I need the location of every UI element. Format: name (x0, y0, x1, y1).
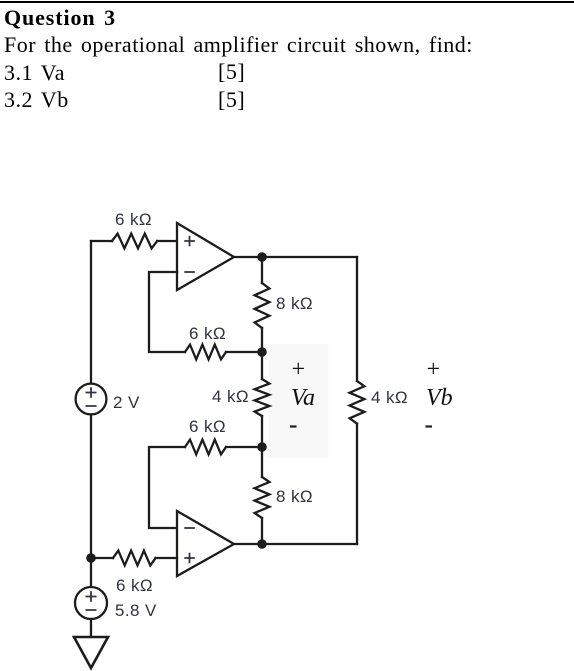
op-amp U2 + sign (184, 553, 195, 564)
wire: lower feedback resistor to node B (226, 446, 262, 448)
op-amp U1 triangle (top) (177, 223, 234, 290)
source V1 polarity (86, 387, 97, 406)
op-amp U1 + sign (86, 236, 195, 610)
ground symbol (74, 637, 108, 668)
svg-text:6 kΩ: 6 kΩ (116, 576, 153, 595)
svg-text:8 kΩ: 8 kΩ (276, 294, 313, 313)
wire: resistor to op-amp + input (157, 240, 177, 242)
source V1 2V circle (76, 384, 107, 415)
wire: bottom 6k to U2 + input (156, 557, 177, 559)
junction node A (257, 347, 267, 357)
svg-text:6 kΩ: 6 kΩ (189, 417, 226, 436)
op-amp U1 - sign (184, 271, 195, 273)
label Va minus (290, 425, 297, 427)
resistor 6k feedback lower (horizontal zigzag) (185, 440, 226, 455)
wire: lower 8k to bottom node (261, 518, 263, 544)
svg-text:6 kΩ: 6 kΩ (189, 324, 226, 343)
marks [5] line 3 (218, 59, 245, 85)
junction node: left bottom (86, 553, 96, 563)
resistor 4k right (vertical zigzag) (350, 381, 365, 424)
svg-text:8 kΩ: 8 kΩ (276, 487, 313, 506)
op-amp U2 triangle (bottom) (177, 511, 234, 576)
junction node B (257, 442, 267, 452)
resistor 4k middle (vertical zigzag) (255, 379, 270, 416)
Va highlight box (269, 344, 329, 458)
wire: 8k to middle node A (261, 328, 263, 352)
resistor 8k upper (vertical zigzag) (255, 283, 270, 328)
svg-text:+: + (290, 357, 306, 383)
wire: feedback resistor to node A (226, 351, 262, 353)
wire: bottom node to right vertical (262, 543, 357, 545)
svg-text:4 kΩ: 4 kΩ (371, 388, 408, 407)
source V2 polarity (86, 591, 97, 610)
resistor 6k bottom (horizontal zigzag) (113, 551, 156, 566)
wire: U1 output to node (234, 256, 262, 258)
wire: node B to lower 8k (261, 447, 263, 477)
wire: left vertical top (from top resistor corner down to 2V source) (90, 241, 92, 384)
wire: bottom junction to 6k (91, 557, 113, 559)
svg-text:6 kΩ: 6 kΩ (115, 210, 152, 229)
svg-text:2 V: 2 V (113, 393, 140, 412)
wire: 4k to node B (261, 416, 263, 447)
resistor 8k lower (vertical zigzag) (255, 477, 270, 518)
wire: middle node down to 4k (261, 352, 263, 379)
wire: U2 output to bottom node (234, 543, 262, 545)
source V2 5.8V circle (75, 587, 107, 619)
wire: U2 inverting feedback left (149, 447, 185, 528)
wire: right vertical upper (356, 257, 358, 381)
wire: right vertical lower (356, 424, 358, 544)
question text (4, 4, 473, 114)
wire: middle column node to 8k (261, 257, 263, 283)
wire: left vertical between 2V and bottom junction (90, 414, 92, 587)
top rule (0, 1, 574, 3)
wire: U1 inverting input feedback left (149, 272, 185, 352)
wire: node to right vertical (262, 256, 357, 258)
highlight box behind Va (0, 0, 1, 1)
svg-text:4 kΩ: 4 kΩ (212, 387, 249, 406)
resistor R 6k top (horizontal zigzag) (112, 234, 157, 249)
wire: top-left horizontal into 6k resistor (91, 240, 112, 242)
op-amp U2 - sign (184, 527, 195, 529)
marks [5] line 4 (218, 87, 245, 113)
svg-text:5.8 V: 5.8 V (115, 601, 157, 620)
svg-text:+: + (425, 357, 441, 383)
junction node: U1 output (257, 252, 267, 262)
junction node: U2 output (257, 539, 267, 549)
svg-text:Va: Va (291, 385, 315, 411)
resistor 6k feedback upper (horizontal zigzag) (185, 345, 226, 360)
label Vb minus (426, 425, 433, 427)
wire: 5.8V to ground (90, 619, 92, 637)
svg-text:Vb: Vb (426, 385, 453, 411)
